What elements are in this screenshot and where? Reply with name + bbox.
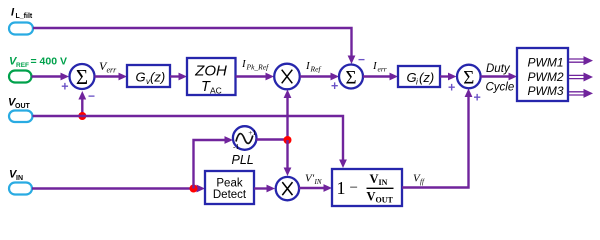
- multiplier X2: [276, 177, 299, 200]
- svg-text:1: 1: [337, 178, 346, 198]
- label IPk_Ref: [241, 58, 269, 72]
- output arrow PWM2: [569, 73, 593, 82]
- block Gi(z): [398, 66, 440, 87]
- svg-text:Cycle: Cycle: [486, 82, 515, 94]
- wire X2 to feedforward box: [299, 184, 332, 192]
- svg-text:ZOH: ZOH: [194, 63, 227, 80]
- svg-text:PLL: PLL: [232, 153, 254, 167]
- junction dot at PLL output: [284, 136, 292, 144]
- summer S2: [339, 65, 363, 89]
- svg-text:PWM1: PWM1: [528, 55, 564, 69]
- wire VOUT junction up to S1 bottom: [78, 91, 86, 116]
- PLL oscillator circle: [233, 126, 257, 151]
- terminal VIN: [9, 183, 32, 195]
- svg-text:V: V: [370, 172, 379, 186]
- svg-text:G: G: [136, 70, 146, 85]
- label VIN: [9, 169, 23, 183]
- svg-text:IN: IN: [314, 178, 322, 186]
- junction dot on VOUT line: [78, 112, 86, 120]
- terminal VOUT: [9, 111, 33, 123]
- wire Peak Detect to X2: [254, 185, 275, 193]
- svg-text:AC: AC: [210, 86, 222, 96]
- svg-text:+1: +1: [248, 128, 256, 137]
- svg-text:-1: -1: [233, 142, 239, 151]
- svg-text:REF: REF: [16, 62, 29, 69]
- svg-text:i: i: [416, 78, 418, 87]
- wire Gi to summer S3: [440, 73, 457, 81]
- wire PLL to junction: [256, 138, 287, 140]
- summer S3: [457, 65, 481, 89]
- svg-text:= 400 V: = 400 V: [31, 56, 68, 68]
- svg-text:Peak: Peak: [216, 178, 242, 190]
- svg-text:IN: IN: [379, 178, 388, 187]
- wire IL_filt to summer S2 top: [33, 28, 355, 64]
- block PWM generator: [517, 48, 568, 101]
- wire feedforward to S3 bottom: [402, 89, 472, 188]
- wire ZOH to multiplier X1: [236, 73, 275, 81]
- junction dot on VIN line: [190, 185, 198, 193]
- wire VOUT to feedforward box top: [33, 116, 347, 168]
- block Gv(z): [127, 65, 170, 87]
- svg-text:(z): (z): [419, 70, 434, 85]
- wire Gv to ZOH: [170, 73, 187, 81]
- svg-text:Σ: Σ: [463, 68, 474, 89]
- svg-text:+: +: [448, 81, 455, 95]
- svg-text:−: −: [350, 180, 358, 196]
- svg-text:OUT: OUT: [15, 103, 31, 110]
- wire X1 to summer S2: [300, 73, 339, 81]
- label Duty Cycle: [486, 63, 515, 94]
- label V'IN: [305, 173, 322, 187]
- svg-text:Detect: Detect: [213, 189, 247, 201]
- wire junction down to multiplier X2: [284, 140, 292, 176]
- terminal VREF: [9, 71, 32, 83]
- svg-text:Duty: Duty: [486, 63, 511, 75]
- svg-text:−: −: [358, 53, 365, 67]
- wire VREF to summer S1: [32, 73, 70, 81]
- wire VIN to Peak Detect: [32, 185, 205, 193]
- label Ierr: [372, 60, 387, 74]
- svg-text:+: +: [61, 80, 68, 94]
- svg-text:+: +: [331, 79, 338, 93]
- wire S2 to Gi: [363, 73, 398, 81]
- block ZOH TAC: [187, 58, 236, 96]
- terminal IL_filt: [9, 23, 33, 35]
- label VREF = 400 V: [9, 56, 67, 70]
- label VOUT: [8, 97, 31, 111]
- svg-text:PWM3: PWM3: [528, 84, 564, 98]
- svg-text:OUT: OUT: [376, 196, 394, 205]
- svg-text:err: err: [107, 66, 118, 75]
- svg-text:L_filt: L_filt: [16, 13, 33, 20]
- svg-text:(z): (z): [150, 70, 165, 85]
- svg-text:V′: V′: [305, 173, 315, 185]
- wire S1 to Gv: [95, 73, 128, 81]
- svg-text:+: +: [474, 91, 481, 105]
- output arrow PWM3: [569, 89, 593, 98]
- wire VIN junction up to PLL: [194, 136, 234, 188]
- multiplier X1: [274, 64, 300, 90]
- svg-text:Σ: Σ: [76, 65, 88, 89]
- svg-text:Ref: Ref: [310, 65, 322, 74]
- svg-text:−: −: [88, 89, 95, 103]
- svg-text:Σ: Σ: [345, 68, 356, 89]
- svg-text:err: err: [378, 65, 387, 74]
- svg-text:PWM2: PWM2: [528, 70, 564, 84]
- block feedforward 1 - VIN/VOUT: [332, 169, 402, 206]
- svg-text:IN: IN: [16, 175, 23, 182]
- label Verr: [99, 59, 117, 75]
- wire S3 to PWM block: [481, 73, 518, 81]
- label IL_filt: [11, 7, 33, 21]
- block Peak Detect: [205, 171, 254, 204]
- summer S1: [70, 64, 95, 89]
- svg-text:Pk_Ref: Pk_Ref: [246, 63, 270, 72]
- wire PLL junction up to X1 bottom: [284, 90, 292, 141]
- label Vff: [413, 173, 425, 187]
- label IRef: [305, 60, 321, 74]
- svg-text:V: V: [367, 190, 376, 204]
- output arrow PWM1: [569, 56, 593, 65]
